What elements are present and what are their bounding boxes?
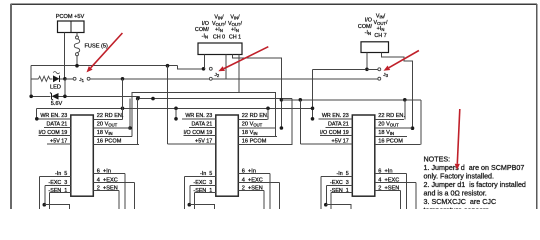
svg-text:-IN: -IN — [202, 33, 208, 39]
node W2 rail junction — [121, 77, 125, 81]
U3 pin 18 VIN — [375, 130, 407, 136]
node conn3 rail end — [411, 126, 415, 130]
svg-text:18 VIN: 18 VIN — [97, 130, 113, 136]
node branch y99.8 — [280, 98, 284, 102]
svg-text:DATA 21: DATA 21 — [192, 121, 213, 127]
LED D1 — [53, 72, 65, 83]
svg-text:WR EN. 23: WR EN. 23 — [322, 113, 349, 119]
svg-text:CH 1: CH 1 — [229, 35, 241, 41]
svg-text:22 RD EN.: 22 RD EN. — [242, 113, 269, 119]
wire rail to IC2 WR EN — [175, 108, 177, 119]
svg-text:WR EN. 23: WR EN. 23 — [185, 113, 212, 119]
U2 pin 1 -SEN — [193, 188, 215, 209]
svg-text:J1: J1 — [79, 77, 84, 83]
svg-text:20 VOUT: 20 VOUT — [378, 121, 399, 127]
U2 pin 3 -EXC — [190, 180, 216, 205]
wire IC3 WR rail — [312, 69, 314, 119]
module U1 body — [71, 115, 94, 196]
U2 pin 23 WR EN — [182, 113, 216, 119]
wire P2 CH1 to right rail — [233, 55, 282, 129]
frame top border — [11, 3, 538, 5]
svg-text:22 RD EN.: 22 RD EN. — [97, 113, 124, 119]
wire W2 continues to J3 — [213, 78, 378, 80]
svg-text:COM/: COM/ — [358, 24, 373, 30]
svg-text:16 PCOM: 16 PCOM — [97, 139, 122, 145]
annotation arrow 3 (J3) — [384, 51, 419, 71]
svg-text:CH 7: CH 7 — [374, 33, 386, 39]
wire bus1 rail to IC2 PCOM — [238, 99, 292, 145]
connector P2 terminal block — [198, 43, 242, 55]
module U3 body — [352, 115, 375, 196]
svg-text:DATA 21: DATA 21 — [47, 121, 68, 127]
wire IC1 RD EN rail up to bus2 — [122, 79, 124, 120]
U2 pin 18 VIN — [238, 130, 276, 136]
resistor R1 — [31, 76, 52, 81]
notes text block — [424, 155, 526, 214]
svg-text:only. Factory installed.: only. Factory installed. — [424, 172, 495, 180]
U1 pin 21 DATA — [44, 121, 71, 127]
U2 pin 17 +5V — [168, 139, 216, 145]
U1 pin 2 +SEN — [93, 186, 119, 209]
svg-text:18 VIN: 18 VIN — [242, 130, 258, 136]
svg-text:CH 0: CH 0 — [213, 35, 225, 41]
U2 pin 21 DATA — [189, 121, 216, 127]
node IC2 VOUT end — [280, 126, 284, 130]
svg-text:+5V 17: +5V 17 — [50, 139, 67, 145]
svg-text:20 VOUT: 20 VOUT — [242, 121, 263, 127]
jumper J1 terminals — [73, 77, 76, 80]
wire PCOM from P1 to LED row — [64, 33, 66, 79]
module U2 body — [216, 115, 239, 196]
svg-text:COM/: COM/ — [195, 27, 210, 33]
U1 pin 18 VIN — [93, 130, 132, 136]
svg-text:NOTES:: NOTES: — [424, 155, 451, 163]
svg-text:J3: J3 — [383, 72, 388, 78]
U3 pin 6 +In — [375, 168, 407, 209]
wire IC1 VOUT rail to bus1 — [129, 99, 131, 128]
connector P3 terminal block — [361, 42, 389, 53]
U2 pin 20 VOUT — [238, 121, 275, 128]
wire zener row jog to bus1 — [138, 96, 140, 98]
node zener right junction — [63, 95, 67, 99]
svg-text:and is a 0Ω resistor.: and is a 0Ω resistor. — [424, 190, 487, 198]
connector P3 labels — [358, 14, 388, 40]
node W1 to IC2 +5V rail — [166, 64, 170, 68]
node IC2 WR EN junction — [174, 117, 178, 121]
U3 pin 20 VOUT — [375, 121, 412, 128]
wire P2 CH0 down to W2 — [225, 55, 227, 79]
U3 pin 2 +SEN — [375, 186, 401, 209]
U1 pin 23 WR EN — [37, 113, 71, 119]
wire bus W1 (+5V row) — [31, 65, 177, 67]
wire bus2 (RD/WR bus) — [37, 107, 313, 109]
node IC3 WR EN junction — [311, 117, 315, 121]
annotation arrow 4 (note 1) — [455, 109, 460, 170]
svg-text:FUSE (5): FUSE (5) — [85, 43, 108, 49]
frame right border — [536, 4, 538, 209]
wire P3 CH7 to right rail — [382, 53, 413, 129]
node P3 branch — [365, 68, 369, 72]
U1 pin 4 +EXC — [93, 178, 134, 209]
U1 pin 6 +In — [93, 168, 125, 209]
wire fuse to node W1 — [76, 56, 78, 66]
U1 pin 17 +5V — [47, 139, 71, 145]
node J2 branch — [202, 67, 206, 71]
wire y99.8 bus right — [281, 99, 420, 101]
svg-text:22 RD EN.: 22 RD EN. — [378, 113, 405, 119]
U3 pin 5 -In — [321, 171, 353, 209]
connector P1 terminal block — [58, 21, 85, 33]
U1 pin 19 I/O COM — [38, 130, 71, 136]
wire IC3 RD EN rail — [404, 100, 406, 120]
node bus2 IC2 WR rail — [174, 107, 178, 111]
U1 pin 22 RD EN — [93, 113, 124, 120]
U3 pin 17 +5V — [300, 139, 352, 145]
U1 pin 20 VOUT — [93, 121, 130, 128]
svg-text:16 PCOM: 16 PCOM — [242, 139, 267, 145]
jumper J3 terminals — [378, 68, 381, 71]
U3 pin 16 PCOM — [375, 139, 421, 145]
annotation arrow 1 (J1) — [87, 33, 123, 72]
node fuse junction on W1 — [75, 64, 79, 68]
wire +5V from P1 to fuse — [76, 33, 78, 37]
wire P3 row to jumper J3 — [313, 68, 366, 70]
svg-text:2. Jumper d1 is factory insta: 2. Jumper d1 is factory installed — [424, 181, 526, 189]
U1 pin 5 -In — [39, 171, 71, 209]
node bus2 IC1 RD rail — [121, 107, 125, 111]
U2 pin 2 +SEN — [238, 186, 263, 209]
svg-text:temperature sensors.: temperature sensors. — [424, 207, 491, 209]
svg-text:VIN/: VIN/ — [376, 14, 386, 20]
svg-text:3. SCMXCJC are CJC: 3. SCMXCJC are CJC — [424, 198, 497, 206]
connector P2 labels — [195, 15, 243, 41]
svg-text:I/O: I/O — [202, 21, 209, 27]
wire rail to IC3 +5V — [299, 100, 301, 144]
wire P2 I/O COM down — [204, 55, 206, 69]
svg-text:DATA 21: DATA 21 — [328, 121, 349, 127]
U3 pin 22 RD EN — [375, 113, 406, 120]
wire IC1 PCOM rail — [137, 99, 139, 145]
svg-text:LED: LED — [50, 84, 61, 90]
wire rail to IC2 pin 17 +5V — [167, 66, 169, 145]
node +5V rail IC3 — [299, 98, 303, 102]
svg-text:J2: J2 — [215, 72, 220, 78]
zener diode D2 5.6V — [31, 93, 139, 100]
svg-text:I/O: I/O — [365, 18, 372, 24]
U2 pin 22 RD EN — [238, 113, 269, 120]
svg-text:20 VOUT: 20 VOUT — [97, 121, 118, 127]
wire bus1 (PCOM bus) — [138, 98, 292, 100]
wire P2 CH1 VIN down — [238, 55, 240, 93]
node LED / PCOM wire junction — [63, 77, 67, 81]
svg-text:-IN: -IN — [365, 30, 371, 36]
U1 pin 16 PCOM — [93, 139, 139, 145]
svg-text:+IN: +IN — [215, 27, 223, 33]
svg-text:I/O COM 19: I/O COM 19 — [184, 130, 213, 136]
U2 pin 19 I/O COM — [183, 130, 216, 136]
node U1 WR EN junction — [35, 117, 39, 121]
U2 pin 16 PCOM — [238, 139, 283, 145]
svg-text:+IN: +IN — [377, 26, 385, 32]
U3 pin 3 -EXC — [326, 180, 352, 205]
wire left rail — [30, 66, 32, 97]
wire W1 drop to jumper J2 row — [178, 66, 204, 69]
wire W2 row segment to jumper J1 — [65, 78, 73, 80]
svg-text:I/O COM 19: I/O COM 19 — [320, 130, 349, 136]
jumper J2 terminals — [209, 67, 212, 70]
wire LED cathode rail down to zener — [64, 79, 66, 97]
wire V_IN link IC1-IC2 — [132, 92, 276, 136]
U3 -EXC bottom wire — [324, 203, 351, 209]
U3 pin 1 -SEN — [330, 188, 352, 209]
svg-text:I/O COM 19: I/O COM 19 — [39, 130, 68, 136]
U3 pin 4 +EXC — [375, 178, 416, 209]
wire bus2 drop to IC1 WR EN — [36, 108, 38, 119]
svg-text:5.6V: 5.6V — [51, 101, 63, 107]
U3 pin 19 I/O COM — [320, 130, 353, 136]
svg-text:PCOM +5V: PCOM +5V — [56, 14, 85, 20]
U3 pin 21 DATA — [325, 121, 352, 127]
svg-text:VIN/: VIN/ — [214, 15, 224, 21]
annotation arrow 2 (J2) — [218, 47, 268, 72]
svg-text:16 PCOM: 16 PCOM — [378, 139, 403, 145]
node bus1 junction — [151, 97, 155, 101]
node IC1 VOUT end — [128, 126, 132, 130]
svg-text:+5V 17: +5V 17 — [195, 139, 212, 145]
U1 pin 3 -EXC — [45, 180, 71, 205]
U2 pin 6 +In — [238, 168, 269, 209]
frame left border — [10, 4, 12, 209]
wire P3 I/O COM down — [366, 53, 368, 70]
wire IC3 PCOM outer rail — [420, 100, 422, 145]
svg-text:1. Jumpers d are on SCMPB07: 1. Jumpers d are on SCMPB07 — [424, 164, 525, 172]
U3 pin 23 WR EN — [318, 113, 352, 119]
node bus2 IC2 RD rail — [266, 107, 270, 111]
U1 pin 1 -SEN — [48, 188, 70, 209]
wire IC2 RD EN rail up to bus2 — [267, 108, 269, 119]
svg-text:+IN: +IN — [231, 27, 239, 33]
svg-text:18 VIN: 18 VIN — [378, 130, 394, 136]
U2 pin 5 -In — [184, 171, 216, 209]
node IC3 RD rail — [403, 98, 407, 102]
U2 pin 4 +EXC — [238, 178, 279, 209]
node bus2 end on IC3 rail — [311, 107, 315, 111]
svg-text:+5V 17: +5V 17 — [332, 139, 349, 145]
U1 -EXC bottom wire — [43, 203, 70, 209]
U2 -EXC bottom wire — [188, 203, 215, 209]
node bus1 IC1 PCOM rail — [136, 97, 140, 101]
node zener left — [29, 95, 33, 99]
svg-text:WR EN. 23: WR EN. 23 — [40, 113, 67, 119]
fuse F1 — [74, 36, 79, 56]
wire W2 long analog bus — [90, 78, 209, 80]
svg-text:VIN/: VIN/ — [230, 15, 240, 21]
